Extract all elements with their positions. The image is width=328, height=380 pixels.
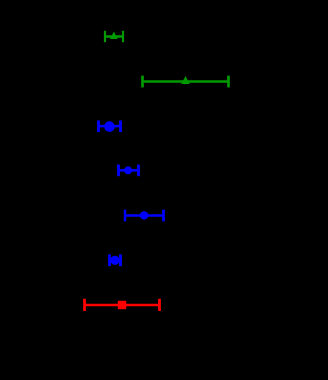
error bar 6 (blue study, row 6) bbox=[109, 254, 121, 266]
triangle marker row 1 bbox=[110, 32, 118, 40]
triangle marker row 2 bbox=[181, 76, 190, 84]
circle marker row 5 bbox=[140, 211, 148, 219]
square marker row 7 bbox=[118, 301, 126, 309]
right cap row 7 bbox=[158, 299, 161, 311]
error bar 1 (green study, row 1) bbox=[104, 31, 123, 42]
circle marker row 4 bbox=[124, 166, 132, 174]
error bar 2 (green study, row 2) bbox=[142, 76, 229, 88]
wire: CI line row 2 bbox=[142, 80, 229, 83]
wire: CI line row 7 bbox=[84, 304, 160, 307]
right cap row 4 bbox=[137, 165, 140, 177]
wire: CI line row 1 bbox=[104, 35, 123, 38]
left cap row 2 bbox=[141, 76, 144, 88]
wire: CI line row 4 bbox=[118, 169, 139, 172]
right cap row 3 bbox=[119, 120, 122, 132]
error bar 3 (blue study, row 3) bbox=[98, 120, 121, 132]
left cap row 6 bbox=[108, 254, 111, 266]
left cap row 1 bbox=[104, 31, 106, 42]
error bar 4 (blue study, row 4) bbox=[118, 165, 139, 177]
left cap row 4 bbox=[117, 165, 120, 177]
error bar 7 (red summary, row 7) bbox=[84, 299, 160, 311]
right cap row 1 bbox=[122, 31, 124, 42]
wire: CI line row 3 bbox=[98, 125, 121, 128]
error bar 5 (blue study, row 5) bbox=[125, 210, 164, 222]
right cap row 2 bbox=[227, 76, 230, 88]
circle marker row 3 bbox=[104, 121, 115, 132]
circle marker row 6 bbox=[110, 256, 119, 265]
left cap row 5 bbox=[124, 210, 126, 222]
wire: CI line row 5 bbox=[125, 214, 164, 217]
left cap row 3 bbox=[97, 120, 100, 132]
left cap row 7 bbox=[83, 299, 86, 311]
right cap row 6 bbox=[119, 254, 122, 266]
right cap row 5 bbox=[162, 210, 165, 222]
wire: CI line row 6 bbox=[109, 259, 121, 262]
